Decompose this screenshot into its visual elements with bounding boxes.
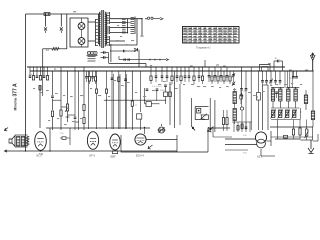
coil L4 [304,95,307,104]
voltage table [183,27,240,44]
mains plug P1 [147,17,149,19]
tube V2 EF9 [87,132,98,150]
wire [39,85,41,128]
wire mains left drop [25,14,27,151]
osc coils [233,92,236,104]
diode D1 [134,49,136,53]
wire [15,134,28,136]
wire [138,50,140,68]
wire [300,108,302,120]
wire [40,149,42,152]
dial lamps [87,51,90,54]
primary tap ladder [95,19,97,46]
wire [250,67,252,130]
svg-text:Tungsram-U: Tungsram-U [196,45,210,49]
junction [25,150,26,151]
wire [110,44,137,46]
osc box [257,93,261,101]
wire [110,40,125,42]
wire [74,67,76,116]
detector box [146,102,151,107]
capacitor C5 pair [118,56,120,60]
contact arrows [192,127,194,129]
wire [141,19,143,35]
speaker LS [9,136,15,147]
tuning indicator arrow [148,145,153,149]
wire [110,44,112,62]
wire [104,99,165,101]
svg-text:570: 570 [39,153,44,156]
lamp La1 [78,23,85,30]
cap bank C8 [208,67,210,75]
svg-text:2 b 4 d 6 f: 2 b 4 d 6 f [152,86,162,88]
wire [190,98,192,126]
antenna RC cluster [262,71,264,80]
capacitor C7 [140,71,142,112]
wire [78,71,80,130]
magic eye EM4 [195,106,208,108]
lamp La2 [78,38,85,45]
capacitor C2 [60,14,62,27]
resistor R5 [96,71,98,89]
RC cluster B [150,67,152,76]
loop wires right [208,128,230,152]
tube V5 AZ1 [255,132,266,143]
wire [241,67,243,88]
transformer T1 secondary [105,12,106,46]
wire [110,32,128,34]
wire arrow left [5,128,9,131]
trimmer pair [233,71,235,74]
coil frame [260,65,271,72]
value labels [33,88,35,89]
capacitor C1 [45,14,47,27]
coil L5 [311,111,314,120]
capacitor C4 pair [103,51,105,54]
wires [284,71,286,88]
bus AVC [119,59,166,61]
bus B+ lower [30,70,313,72]
wire [301,139,313,141]
wire [66,14,68,49]
resistor pair [222,118,224,125]
svg-text:AZ 1: AZ 1 [257,155,263,159]
wire [277,120,279,140]
RC cluster C [86,71,88,76]
wire [110,22,130,24]
bus junctions [52,70,53,71]
resistor R1 [43,48,52,50]
shield box verticals [262,85,264,130]
capacitor C6 [52,72,54,96]
wire [88,21,95,23]
tube V3 EBF2 [110,134,120,150]
label 220 [73,11,76,12]
resistor R4 [131,71,133,101]
svg-text:ECH 4: ECH 4 [136,154,144,158]
choke coil [26,136,28,146]
wire heater 1 [110,18,142,20]
svg-text:13: 13 [46,48,50,52]
output transformer T2 [17,137,20,147]
cluster mid-left bottom [62,137,66,140]
potentiometer P [67,71,69,104]
svg-text:5000: 5000 [160,90,166,92]
resistor R6 [106,71,108,89]
wire [270,126,313,128]
grid box [112,151,117,154]
rectifier box [70,18,88,47]
trimmer row [271,107,300,109]
fuse F1 [44,13,50,16]
transformer T1 primary [99,12,100,46]
bus B+ upper [27,66,285,68]
trimmer P2 [305,129,308,136]
wire [260,149,262,156]
wire [110,27,135,29]
wire [225,138,256,140]
voltage selector comb B [131,17,135,19]
wire [169,82,171,125]
bus segment [109,63,146,65]
svg-text:EF 9: EF 9 [90,154,96,158]
wire [209,98,211,132]
res pair right [292,129,294,135]
svg-text:EBF: EBF [111,155,116,159]
glyph column [240,88,243,90]
bottom bus [5,150,178,152]
voltage selector comb A [122,19,126,21]
tie wires [53,99,62,101]
wire mains top bus [26,13,102,15]
tube V4 ECH4 [135,134,146,145]
wire [270,131,272,146]
capacitor C3 [110,50,123,52]
wire [174,71,176,128]
wire [146,139,177,141]
resistor R3 [83,67,85,104]
resistor R2 [60,67,62,110]
tuning cap CV [159,127,165,133]
wire [271,136,313,138]
ground chassis [310,140,312,149]
junction [141,18,142,19]
wire [136,19,138,45]
wire [275,138,301,140]
transformer T1 core [101,10,103,48]
wire top loop [46,127,150,129]
wire [42,67,44,96]
secondary taps [109,12,111,24]
cluster pre-rect [233,122,235,132]
wire [179,84,181,125]
wire [317,134,319,141]
heater wiring verticals [87,71,89,129]
RC cluster A [29,67,31,76]
tube V1 EL3 [35,132,47,151]
loop wires bottom center [121,135,177,152]
IF transformer IF1 [271,89,274,101]
IF transformer IF2 [287,89,290,101]
detector parts [164,92,168,97]
antenna A1 [312,60,314,71]
wire [49,128,51,151]
capacitor C9 [293,71,295,76]
band caps [273,61,275,71]
